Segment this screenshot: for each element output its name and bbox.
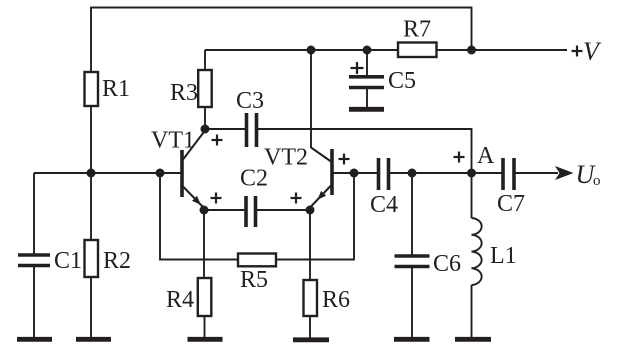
svg-text:C3: C3 bbox=[236, 88, 264, 114]
ground below C5 bbox=[349, 107, 384, 112]
plus polarity mark of C5 bbox=[351, 62, 364, 74]
wire VT2 collector to +V rail bbox=[310, 50, 312, 148]
svg-text:A: A bbox=[477, 143, 495, 169]
resistor R5 bbox=[238, 254, 276, 294]
plus polarity mark of C2 left bbox=[211, 193, 222, 204]
svg-text:R5: R5 bbox=[240, 267, 268, 293]
ground below C6 bbox=[394, 337, 430, 342]
node A junction bbox=[467, 169, 476, 178]
node junction on +V rail at top-rail drop bbox=[467, 46, 476, 55]
node junction VT2 emitter bbox=[306, 206, 315, 215]
svg-text:VT2: VT2 bbox=[264, 145, 308, 171]
svg-text:V: V bbox=[583, 37, 602, 66]
capacitor C3 bbox=[209, 88, 264, 147]
svg-text:L1: L1 bbox=[490, 243, 517, 269]
svg-text:R3: R3 bbox=[170, 80, 198, 106]
capacitor C5 (electrolytic) bbox=[349, 50, 416, 107]
node junction VT1 collector / R3 / C3 bbox=[201, 125, 210, 134]
transistor VT1 bbox=[151, 128, 205, 209]
capacitor C2 bbox=[204, 166, 310, 228]
capacitor C4 bbox=[354, 158, 412, 218]
ground below L1 bbox=[455, 337, 491, 342]
svg-text:C7: C7 bbox=[497, 191, 525, 217]
label +V bbox=[572, 37, 603, 66]
transistor VT2 bbox=[264, 145, 354, 208]
label Uo output bbox=[576, 160, 601, 189]
node junction VT1 emitter bbox=[200, 206, 209, 215]
svg-text:C6: C6 bbox=[433, 251, 461, 277]
svg-text:C4: C4 bbox=[370, 192, 398, 218]
capacitor C1 bbox=[18, 173, 82, 337]
node junction R1/R2 bbox=[87, 169, 96, 178]
resistor R7 bbox=[398, 17, 437, 58]
resistor R4 bbox=[166, 210, 211, 337]
ground below R6 bbox=[293, 337, 329, 342]
wire C3 to node A drop bbox=[258, 129, 472, 173]
resistor R3 bbox=[170, 50, 212, 129]
wire left base rail bbox=[34, 172, 181, 174]
svg-text:R1: R1 bbox=[102, 76, 130, 102]
wire output with arrowhead bbox=[516, 166, 574, 180]
plus polarity mark of C7 left bbox=[454, 152, 465, 163]
wire top rail from R1 top to +V drop bbox=[91, 8, 472, 73]
wire R1 bottom to base rail bbox=[90, 106, 92, 173]
wire R5 to VT2 base bbox=[276, 173, 354, 260]
resistor R6 bbox=[304, 210, 351, 338]
node junction C4 / C6 bbox=[408, 169, 417, 178]
svg-text:o: o bbox=[593, 173, 601, 189]
ground below C1 bbox=[17, 337, 52, 342]
resistor R1 bbox=[85, 72, 131, 106]
capacitor C6 bbox=[395, 173, 462, 337]
svg-text:C2: C2 bbox=[240, 166, 268, 192]
plus polarity mark of C4 left bbox=[339, 154, 350, 165]
node junction VT1 base bbox=[156, 169, 165, 178]
node junction on +V rail at VT2 collector bbox=[307, 46, 316, 55]
wire VT1 base to R5 bbox=[160, 173, 237, 260]
plus polarity mark of C3 left bbox=[212, 135, 223, 146]
svg-text:C5: C5 bbox=[388, 68, 416, 94]
capacitor C7 bbox=[472, 158, 526, 217]
svg-text:R4: R4 bbox=[166, 287, 194, 313]
svg-text:R7: R7 bbox=[403, 17, 431, 43]
svg-text:R6: R6 bbox=[322, 287, 350, 313]
wire C6 node to node A bbox=[412, 172, 472, 174]
inductor L1 bbox=[472, 173, 517, 337]
ground below R4 bbox=[188, 337, 223, 342]
plus polarity mark of C2 right bbox=[291, 193, 302, 204]
svg-text:VT1: VT1 bbox=[151, 128, 195, 154]
wire +V rail bbox=[205, 49, 567, 51]
node junction on +V rail at C5 bbox=[363, 46, 372, 55]
svg-text:C1: C1 bbox=[54, 248, 82, 274]
ground below R2 bbox=[76, 337, 111, 342]
node junction VT2 base / C4 bbox=[350, 169, 359, 178]
svg-text:R2: R2 bbox=[103, 248, 131, 274]
resistor R2 bbox=[85, 173, 132, 337]
